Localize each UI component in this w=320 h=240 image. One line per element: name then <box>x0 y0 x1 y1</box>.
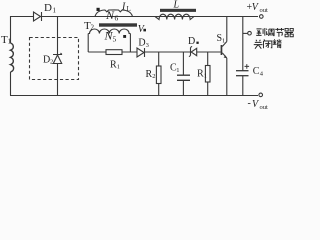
wire: bottom rail <box>10 95 258 97</box>
wire: N5 left lead <box>87 34 89 53</box>
transistor S1 emitter <box>222 53 227 96</box>
wire: right branch vertical <box>242 17 244 96</box>
wire: stub to regulator terminal <box>243 32 248 34</box>
svg-text:D: D <box>44 2 52 14</box>
char 调 <box>266 29 274 36</box>
diode D4 (zener, points left) <box>191 48 197 55</box>
svg-text:out: out <box>260 7 269 14</box>
svg-text:2: 2 <box>152 73 155 80</box>
resistor R1 (horizontal) <box>106 50 122 55</box>
phase dot (N6 left) <box>97 8 100 11</box>
phase dot (N5 right) <box>123 35 126 38</box>
svg-text:L: L <box>127 5 131 13</box>
resistor R2 (vertical) <box>158 52 160 96</box>
svg-text:6: 6 <box>115 14 119 23</box>
wire: left vertical <box>10 16 12 96</box>
winding T1 (left coil) <box>11 43 14 72</box>
svg-text:1: 1 <box>8 38 12 46</box>
transistor S1 base bar <box>221 45 223 55</box>
winding N5 (bottom) <box>88 29 130 34</box>
winding N6 (top) <box>95 10 133 17</box>
svg-text:I: I <box>121 2 126 13</box>
svg-text:-: - <box>248 98 251 109</box>
resistor R3 (vertical) <box>207 52 209 96</box>
terminal circle +Vout <box>260 15 264 19</box>
wire: N5 right lead <box>129 34 131 53</box>
char 端 <box>273 39 282 48</box>
terminal circle -Vout <box>259 93 263 97</box>
svg-text:D: D <box>138 38 145 49</box>
diode D1 <box>34 12 41 21</box>
chinese text: dao tiao jie qi (to regulator) <box>254 28 293 49</box>
capacitor C4 (electrolytic) <box>236 70 249 72</box>
svg-text:4: 4 <box>260 70 264 77</box>
svg-text:L: L <box>173 0 180 11</box>
svg-text:5: 5 <box>113 35 117 44</box>
char 节 <box>275 28 284 37</box>
svg-text:2: 2 <box>50 59 53 66</box>
wire: middle horizontal <box>88 51 220 53</box>
svg-text:C: C <box>253 66 260 77</box>
diode D2 (zener, in dashed box) <box>53 53 62 55</box>
inductor L core bar <box>160 9 196 12</box>
svg-text:1: 1 <box>204 73 207 80</box>
char 器 <box>285 28 293 36</box>
char 关 <box>254 40 263 49</box>
transistor S1 collector <box>222 17 227 47</box>
svg-text:out: out <box>260 104 269 110</box>
capacitor C1 <box>182 52 184 96</box>
svg-text:1: 1 <box>176 67 179 74</box>
char 到 <box>256 28 265 36</box>
svg-text:3: 3 <box>146 42 149 49</box>
svg-text:D: D <box>188 36 195 47</box>
inductor L <box>155 14 194 19</box>
transformer core <box>99 23 137 26</box>
dashed protection box <box>30 38 79 80</box>
svg-text:1: 1 <box>53 7 57 15</box>
char 闭 <box>263 39 271 48</box>
terminal circle (to regulator) <box>248 31 252 35</box>
svg-text:1: 1 <box>117 64 120 71</box>
wire: top rail <box>10 16 258 18</box>
wire: vertical through dashed box <box>57 16 59 96</box>
svg-text:N: N <box>105 8 115 22</box>
diode D3 <box>137 48 144 57</box>
plus sign of C4 <box>245 64 250 69</box>
svg-text:1: 1 <box>222 38 225 45</box>
